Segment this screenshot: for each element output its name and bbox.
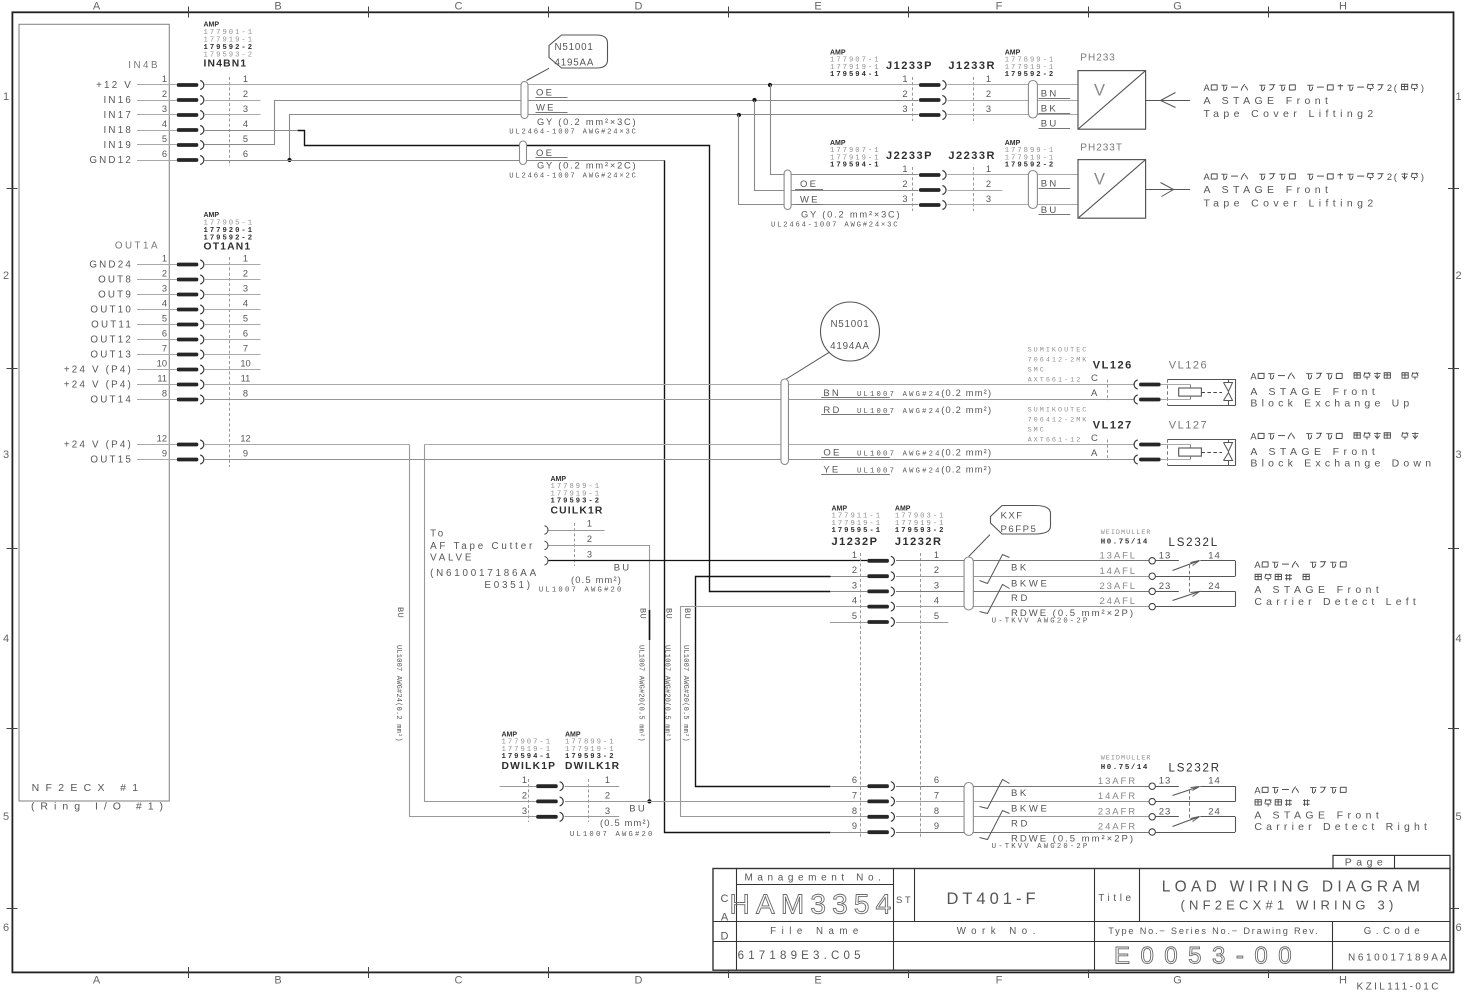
svg-text:3: 3 [934,580,939,590]
svg-text:2: 2 [1455,270,1461,282]
CUILK1R pin 2 [545,541,548,550]
switch contact LS232R 1 [1155,786,1178,788]
svg-text:179594-1: 179594-1 [830,162,881,170]
svg-text:DWILK1R: DWILK1R [565,761,620,772]
svg-text:UL2464-1007 AWG#24×2C: UL2464-1007 AWG#24×2C [509,173,637,181]
svg-text:AF Tape Cutter: AF Tape Cutter [430,541,535,552]
svg-text:E: E [814,975,821,987]
svg-text:706412-2MK: 706412-2MK [1028,357,1089,365]
svg-text:BU: BU [664,608,674,619]
svg-text:BU: BU [1041,119,1059,130]
svg-text:DT401-F: DT401-F [946,890,1039,908]
svg-text:+24 V (P4): +24 V (P4) [64,380,133,391]
svg-text:UL2464-1007 AWG#24×3C: UL2464-1007 AWG#24×3C [771,222,899,230]
svg-text:IN16: IN16 [104,95,134,106]
terminal strip LS232R [980,780,1010,809]
svg-text:RD: RD [1011,593,1030,604]
cable marker J2233R (BN/BU) [1028,171,1037,209]
svg-text:OUT1A: OUT1A [115,241,160,252]
svg-text:AXT661-12: AXT661-12 [1028,377,1083,385]
svg-text:C: C [1091,433,1098,444]
svg-text:5: 5 [162,314,167,324]
svg-text:N51001: N51001 [555,42,594,53]
svg-text:(N610017186AA: (N610017186AA [430,568,539,579]
svg-text:A STAGE Front: A STAGE Front [1250,446,1379,458]
svg-text:F: F [996,975,1003,987]
svg-text:GY (0.2 mm²×2C): GY (0.2 mm²×2C) [537,161,637,171]
svg-text:1: 1 [1455,91,1461,103]
svg-text:2: 2 [986,89,991,99]
cable marker J1233R (BN/BK/BU) [1028,81,1037,119]
svg-text:2: 2 [852,565,857,575]
svg-text:7: 7 [934,790,939,800]
svg-text:IN18: IN18 [104,125,134,136]
CUILK1R pin 1 [545,526,548,535]
svg-text:179593-2: 179593-2 [551,498,602,506]
svg-text:VL126: VL126 [1093,360,1133,372]
svg-text:5: 5 [162,134,167,144]
svg-text:V: V [1094,171,1105,189]
svg-text:24: 24 [1208,581,1221,592]
balloon KXF/P6FP5 [991,506,1051,535]
svg-text:UL1007 AWG#24: UL1007 AWG#24 [857,391,942,399]
svg-text:2: 2 [3,270,9,282]
svg-text:D: D [721,931,729,943]
svg-text:UL1007 AWG#20(0.5 mm²): UL1007 AWG#20(0.5 mm²) [663,645,671,742]
wire VL127 C net + drop to DWILK1P-2 [425,444,1135,446]
svg-text:PH233T: PH233T [1080,143,1123,154]
svg-text:OUT10: OUT10 [90,305,133,316]
svg-text:3: 3 [587,549,592,559]
svg-text:706412-2MK: 706412-2MK [1028,417,1089,425]
svg-text:File Name: File Name [770,926,864,937]
svg-text:VL126: VL126 [1169,360,1208,372]
wire J1232P pin2-pin6 loop [831,576,868,578]
svg-text:Tape Cover Lifting2: Tape Cover Lifting2 [1204,198,1378,210]
svg-text:5: 5 [243,314,248,324]
svg-text:179595-1: 179595-1 [832,527,883,535]
CUILK1R pin1 stub [549,530,605,532]
svg-text:4: 4 [934,596,939,606]
svg-text:6: 6 [1455,922,1461,934]
svg-text:): ) [1421,83,1424,93]
svg-text:BU: BU [614,563,632,574]
svg-text:(0.2 mm²): (0.2 mm²) [941,465,992,475]
svg-text:A: A [93,975,101,987]
svg-text:4: 4 [243,299,248,309]
svg-text:J2233R: J2233R [948,150,996,162]
svg-text:BU: BU [395,607,405,618]
svg-text:PH233: PH233 [1080,53,1116,64]
switch contact LS232R 2 [1155,816,1178,818]
svg-text:AMP: AMP [1005,49,1021,56]
surge suppressor VL127 [1228,439,1230,443]
svg-text:11: 11 [241,374,251,384]
svg-text:P6FP5: P6FP5 [1001,524,1038,535]
label A STAGE Front Tape Cover Lifting2 (2) [0,0,1,1]
svg-text:3: 3 [605,806,610,816]
svg-text:NF2ECX #1: NF2ECX #1 [32,782,145,794]
svg-text:Work No.: Work No. [957,926,1041,937]
junction dot DWILK1R-2 / CUILK1R-2 [647,799,651,803]
svg-text:H0.75/14: H0.75/14 [1101,764,1149,772]
svg-text:6: 6 [162,329,167,339]
svg-text:14AFL: 14AFL [1100,566,1138,577]
DWILK1R stubs [565,786,620,788]
svg-text:1: 1 [605,775,610,785]
svg-text:13AFR: 13AFR [1098,776,1137,787]
svg-text:IN4BN1: IN4BN1 [204,58,248,69]
svg-text:A: A [1250,372,1257,382]
svg-text:1: 1 [934,550,939,560]
svg-text:1: 1 [986,74,991,84]
svg-text:SMC: SMC [1028,427,1046,435]
wire GND12 net (IN4B-6 to J1232P-9 via vertical) [204,160,665,162]
svg-text:UL1007 AWG#24: UL1007 AWG#24 [857,468,942,476]
svg-text:179593-2: 179593-2 [565,753,616,761]
svg-text:4: 4 [162,299,167,309]
svg-text:Block Exchange Up: Block Exchange Up [1250,398,1413,410]
svg-text:1: 1 [162,254,167,264]
svg-text:3: 3 [162,284,167,294]
switch contact LS232L 1 [1155,560,1178,562]
switch contact LS232L 2 [1155,591,1178,593]
wire IN19 net with jog (IN4B-5 to J1233P-2) [205,101,919,145]
svg-text:14AFR: 14AFR [1098,791,1137,802]
svg-text:WE: WE [800,194,820,205]
svg-text:Title: Title [1098,893,1135,904]
svg-text:GY (0.2 mm²×3C): GY (0.2 mm²×3C) [801,210,901,220]
svg-text:BU: BU [629,804,647,815]
wire IN18 net (IN4B-4 jog down, to J1232P-3 via vertical) [204,130,297,132]
wire +24V(P4) pin11 to VL126 C [204,384,1135,386]
svg-text:6: 6 [162,149,167,159]
svg-text:C: C [721,893,729,905]
junction dot GND12 branch [287,158,291,162]
svg-text:23: 23 [1159,581,1172,592]
svg-text:3: 3 [243,284,248,294]
svg-text:1: 1 [243,254,248,264]
svg-text:E0351): E0351) [484,580,532,591]
cable marker J1232R lower [964,783,973,836]
svg-text:OUT12: OUT12 [90,335,133,346]
svg-text:UL1007 AWG#24(0.2 mm²): UL1007 AWG#24(0.2 mm²) [394,645,402,742]
svg-text:U-TKVV AWG20-2P: U-TKVV AWG20-2P [992,843,1090,851]
svg-text:Page: Page [1345,856,1388,868]
svg-text:G: G [1173,975,1182,987]
svg-text:BK: BK [1011,788,1029,799]
svg-text:VL127: VL127 [1093,420,1133,432]
svg-text:A: A [1250,432,1257,442]
svg-text:BK: BK [1011,563,1029,574]
svg-text:C: C [455,1,463,13]
svg-text:1: 1 [3,91,9,103]
svg-text:SUMIKOUTEC: SUMIKOUTEC [1028,347,1089,355]
svg-text:5: 5 [852,611,857,621]
svg-text:9: 9 [243,449,248,459]
title block [1333,855,1450,868]
svg-text:4: 4 [852,596,857,606]
svg-text:5: 5 [934,611,939,621]
wire +24V(P4) pin12 to vertical BU drop [204,444,409,446]
svg-text:6: 6 [243,329,248,339]
svg-text:IN17: IN17 [104,110,134,121]
wires J2233P branch drops [771,85,919,175]
svg-text:8: 8 [934,806,939,816]
svg-text:179592-2: 179592-2 [1005,162,1056,170]
svg-text:G.Code: G.Code [1364,926,1424,937]
svg-text:6: 6 [243,149,248,159]
junction dot +12V / J2233 branch [768,83,772,87]
svg-text:B: B [274,975,281,987]
svg-text:U-TKVV AWG20-2P: U-TKVV AWG20-2P [992,617,1090,625]
arrow emit (PH233T) [1146,189,1191,191]
svg-text:24: 24 [1208,806,1221,817]
svg-text:4194AA: 4194AA [830,341,870,352]
svg-text:KXF: KXF [1001,511,1024,522]
svg-text:IN4B: IN4B [128,60,160,71]
svg-text:23AFR: 23AFR [1098,806,1137,817]
label A STAGE Front Tape Cover Lifting2 (1) [0,0,1,1]
svg-text:D: D [635,1,643,13]
cable marker J1232R upper [964,557,973,610]
svg-text:14: 14 [1208,776,1221,787]
DWILK1P pin1 lead [500,786,537,788]
svg-text:OE: OE [536,88,554,99]
svg-text:H: H [1339,1,1347,13]
svg-text:HAM3354: HAM3354 [730,889,898,920]
svg-text:1: 1 [522,775,527,785]
svg-text:1: 1 [162,74,167,84]
svg-text:23AFL: 23AFL [1100,581,1138,592]
wire DWILK1R-2 to J1232P-7 [565,801,867,803]
svg-text:J1232R: J1232R [895,536,943,548]
svg-text:10: 10 [240,359,250,369]
svg-text:OUT14: OUT14 [90,395,133,406]
svg-text:(0.2 mm²): (0.2 mm²) [941,405,992,415]
balloon N51001/4194AA [821,302,880,361]
wire J1232P pin4-pin8 loop [681,607,868,817]
svg-text:SMC: SMC [1028,367,1046,375]
svg-text:BK: BK [1041,104,1058,115]
svg-text:1: 1 [587,519,592,529]
svg-text:H0.75/14: H0.75/14 [1101,539,1149,547]
svg-text:WEIDMULLER: WEIDMULLER [1101,754,1152,762]
svg-text:N51001: N51001 [830,319,869,330]
arrow receive (PH233) [1146,100,1191,102]
svg-text:H: H [1339,975,1347,987]
wire vertical BU (0.2mm) drop to DWILK1P-3 [410,445,537,817]
svg-text:(0.5 mm²): (0.5 mm²) [571,575,622,585]
block NF2ECX #1 (Ring I/O #1) [19,24,169,801]
svg-text:5: 5 [1455,811,1461,823]
svg-text:V: V [1094,82,1105,100]
svg-text:2: 2 [243,89,248,99]
svg-text:24AFL: 24AFL [1100,596,1138,607]
svg-text:(0.2 mm²): (0.2 mm²) [941,448,992,458]
svg-text:OUT8: OUT8 [98,275,133,286]
svg-text:AMP: AMP [204,212,220,219]
svg-text:AMP: AMP [204,22,220,29]
svg-text:A: A [721,912,729,924]
svg-text:UL1007 AWG#20: UL1007 AWG#20 [570,831,655,839]
wire OUT14 to VL126 A [204,399,1135,401]
svg-text:OUT13: OUT13 [90,350,133,361]
cable marker VL (4 wires) [781,379,789,465]
svg-text:2: 2 [902,179,907,189]
svg-text:): ) [1421,172,1424,182]
svg-text:E: E [814,1,821,13]
svg-text:C: C [1091,373,1098,384]
svg-text:A STAGE Front: A STAGE Front [1254,584,1383,596]
CUILK1R pin2 wire to BU drop [549,546,650,802]
svg-text:A: A [1254,785,1261,795]
svg-text:24AFR: 24AFR [1098,822,1137,833]
svg-text:(0.2 mm²): (0.2 mm²) [941,388,992,398]
svg-text:J1232P: J1232P [832,536,879,548]
terminal strip LS232L [980,555,1010,584]
wire stubs unconnected pins [204,100,261,102]
svg-text:Type No.− Series No.− Drawing: Type No.− Series No.− Drawing Rev. [1108,926,1319,936]
J2233R wires [948,174,1079,176]
svg-text:3: 3 [852,580,857,590]
svg-text:(Ring I/O #1): (Ring I/O #1) [31,801,169,813]
svg-text:2: 2 [522,790,527,800]
svg-text:GY (0.2 mm²×3C): GY (0.2 mm²×3C) [537,117,637,127]
svg-text:VALVE: VALVE [430,553,474,564]
svg-text:3: 3 [902,104,907,114]
svg-text:2: 2 [1387,172,1392,182]
svg-text:GND12: GND12 [89,155,133,166]
svg-text:4: 4 [243,119,248,129]
svg-text:WEIDMULLER: WEIDMULLER [1101,529,1152,537]
svg-text:2: 2 [605,790,610,800]
svg-text:2: 2 [587,534,592,544]
svg-text:10: 10 [157,359,167,369]
svg-text:AXT661-12: AXT661-12 [1028,437,1083,445]
svg-text:J1233P: J1233P [886,60,933,72]
svg-text:2: 2 [934,565,939,575]
svg-text:BKWE: BKWE [1011,804,1049,815]
svg-text:UL1007 AWG#20(0.5 mm²): UL1007 AWG#20(0.5 mm²) [681,645,689,742]
svg-text:Management No.: Management No. [744,873,885,884]
svg-text:2: 2 [986,179,991,189]
svg-text:3: 3 [162,104,167,114]
svg-text:A: A [1204,172,1211,182]
svg-text:4195AA: 4195AA [555,58,595,69]
svg-text:617189E3.C05: 617189E3.C05 [738,950,865,962]
svg-text:UL1007 AWG#24: UL1007 AWG#24 [857,408,942,416]
svg-text:+24 V (P4): +24 V (P4) [64,440,133,451]
svg-text:BN: BN [1041,179,1059,190]
svg-text:RD: RD [1011,818,1030,829]
svg-text:OE: OE [823,448,841,459]
svg-text:14: 14 [1208,550,1221,561]
svg-text:9: 9 [852,821,857,831]
svg-text:3: 3 [522,806,527,816]
svg-text:GND24: GND24 [89,260,133,271]
svg-text:ST: ST [896,895,913,906]
svg-text:AMP: AMP [830,140,846,147]
svg-text:UL1007 AWG#24: UL1007 AWG#24 [857,451,942,459]
cable marker J2233 3-core [784,170,791,210]
svg-text:8: 8 [243,389,248,399]
svg-text:OUT11: OUT11 [91,320,133,331]
svg-text:1: 1 [902,74,907,84]
svg-text:Tape Cover Lifting2: Tape Cover Lifting2 [1204,108,1378,120]
svg-text:J1233R: J1233R [948,60,996,72]
svg-text:7: 7 [243,344,248,354]
svg-text:AMP: AMP [551,476,567,483]
svg-text:179593-2: 179593-2 [895,527,946,535]
svg-text:OUT15: OUT15 [90,455,133,466]
svg-text:A STAGE Front: A STAGE Front [1204,184,1333,196]
svg-text:CUILK1R: CUILK1R [551,506,604,517]
svg-text:Block Exchange Down: Block Exchange Down [1250,458,1435,470]
svg-text:1: 1 [852,550,857,560]
svg-text:8: 8 [162,389,167,399]
wire J1232P pin5 stub [830,622,868,624]
svg-text:4: 4 [3,633,9,645]
svg-text:UL1007 AWG#20: UL1007 AWG#20 [539,587,624,595]
svg-text:2: 2 [162,89,167,99]
svg-text:3: 3 [986,194,991,204]
svg-text:KZIL111-01C: KZIL111-01C [1357,982,1441,993]
svg-text:5: 5 [3,811,9,823]
svg-text:(0.5 mm²): (0.5 mm²) [600,818,651,828]
svg-text:3: 3 [3,449,9,461]
svg-text:9: 9 [162,449,167,459]
svg-text:A STAGE Front: A STAGE Front [1250,386,1379,398]
svg-text:179594-1: 179594-1 [502,753,553,761]
svg-text:A: A [93,1,101,13]
svg-text:C: C [455,975,463,987]
svg-text:6: 6 [934,775,939,785]
svg-text:179594-1: 179594-1 [830,71,881,79]
svg-text:9: 9 [934,821,939,831]
svg-text:AMP: AMP [565,732,581,739]
svg-text:AMP: AMP [1005,140,1021,147]
svg-text:IN19: IN19 [104,140,134,151]
svg-text:2: 2 [243,269,248,279]
svg-text:1: 1 [243,74,248,84]
cable marker 3-core (UL2464 3C) [521,82,528,119]
svg-text:AMP: AMP [502,732,518,739]
svg-text:A: A [1254,560,1261,570]
svg-text:4: 4 [1455,633,1461,645]
svg-text:OUT9: OUT9 [98,290,133,301]
svg-text:13: 13 [1159,550,1172,561]
svg-text:A STAGE Front: A STAGE Front [1204,95,1333,107]
svg-text:UL1007 AWG#20(0.5 mm²): UL1007 AWG#20(0.5 mm²) [637,645,645,742]
balloon N51001/4195AA [549,35,608,68]
svg-text:(NF2ECX#1 WIRING 3): (NF2ECX#1 WIRING 3) [1180,898,1397,913]
svg-text:B: B [274,1,281,13]
svg-text:3: 3 [986,104,991,114]
svg-text:BN: BN [1041,89,1059,100]
svg-text:VL127: VL127 [1169,420,1208,432]
svg-text:J2233P: J2233P [886,150,933,162]
wire +12V net (IN4B-1 to J1233P-1) [204,84,919,86]
svg-text:3: 3 [1455,449,1461,461]
svg-text:8: 8 [852,806,857,816]
svg-text:LS232L: LS232L [1169,537,1219,549]
svg-text:4: 4 [162,119,167,129]
svg-text:11: 11 [157,374,167,384]
svg-text:1: 1 [902,164,907,174]
CUILK1R pin3 wire to J1232P-1 [549,560,868,562]
svg-text:A: A [1091,448,1098,459]
